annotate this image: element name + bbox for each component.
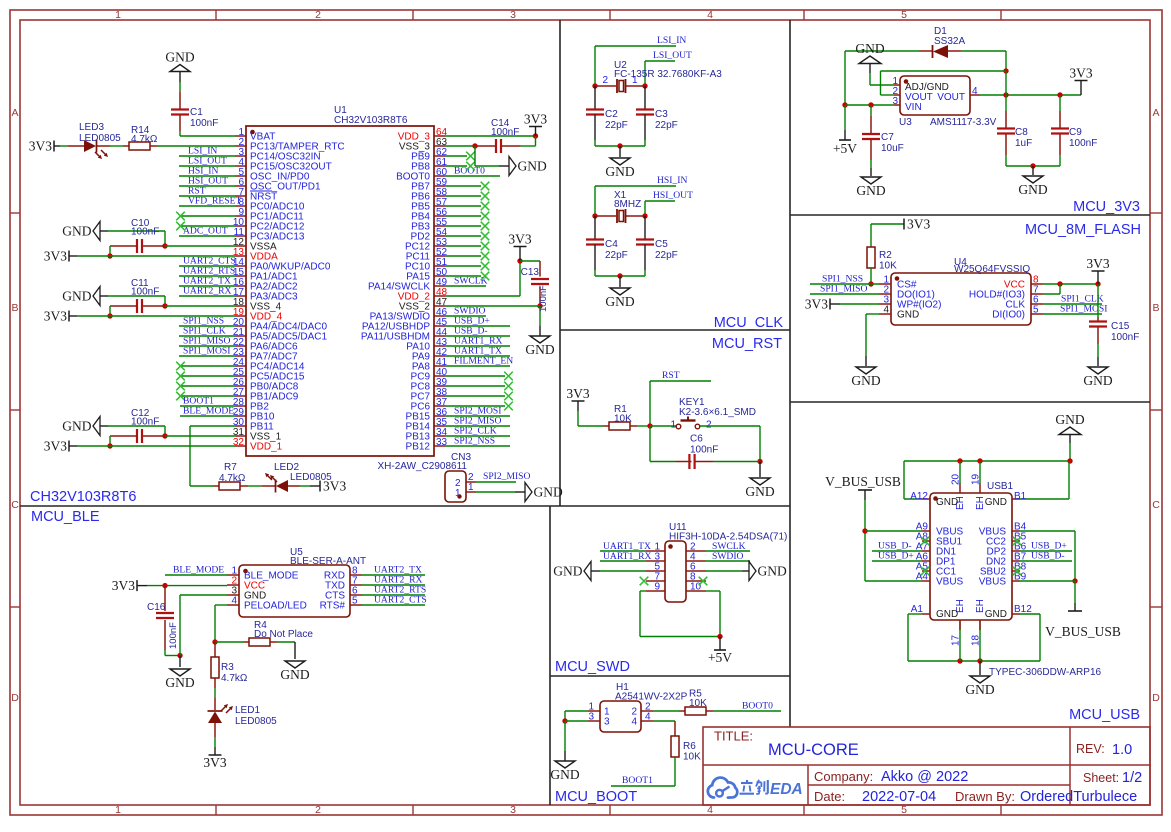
- svg-text:C5: C5: [655, 239, 668, 250]
- svg-text:C: C: [11, 499, 19, 511]
- svg-text:UART2_CTS: UART2_CTS: [374, 595, 427, 606]
- svg-text:C6: C6: [690, 434, 703, 445]
- svg-text:MCU-CORE: MCU-CORE: [768, 741, 859, 759]
- svg-text:VBUS: VBUS: [979, 577, 1007, 588]
- svg-text:VDD_1: VDD_1: [250, 442, 283, 453]
- svg-text:GND: GND: [550, 767, 579, 782]
- svg-text:100nF: 100nF: [131, 227, 159, 238]
- svg-text:4.7kΩ: 4.7kΩ: [131, 134, 158, 145]
- svg-text:LED1: LED1: [235, 705, 260, 716]
- svg-text:C2: C2: [605, 109, 618, 120]
- svg-text:SPI1_MOSI: SPI1_MOSI: [1060, 304, 1107, 315]
- svg-text:3V3: 3V3: [907, 217, 930, 232]
- svg-text:SWDIO: SWDIO: [712, 551, 744, 562]
- svg-text:4: 4: [645, 712, 651, 723]
- svg-text:C9: C9: [1069, 127, 1082, 138]
- svg-text:W25Q64FVSSIQ: W25Q64FVSSIQ: [954, 264, 1030, 275]
- svg-text:LED0805: LED0805: [235, 716, 277, 727]
- svg-text:18: 18: [971, 634, 982, 646]
- svg-text:C1: C1: [190, 107, 203, 118]
- svg-text:U3: U3: [899, 117, 912, 128]
- svg-text:MCU_3V3: MCU_3V3: [1073, 199, 1140, 215]
- svg-text:4: 4: [707, 9, 713, 21]
- svg-text:VFD_RESET: VFD_RESET: [188, 196, 241, 207]
- svg-text:GND: GND: [745, 484, 774, 499]
- svg-text:3V3: 3V3: [44, 309, 67, 324]
- svg-text:100nF: 100nF: [1069, 138, 1097, 149]
- svg-text:UART1_RX: UART1_RX: [603, 551, 652, 562]
- svg-text:C3: C3: [655, 109, 668, 120]
- svg-text:PB12: PB12: [406, 442, 431, 453]
- svg-text:100nF: 100nF: [491, 127, 519, 138]
- svg-text:DI(IO0): DI(IO0): [992, 310, 1025, 321]
- svg-text:10K: 10K: [614, 414, 632, 425]
- svg-text:GND: GND: [280, 667, 309, 682]
- svg-text:22pF: 22pF: [605, 250, 628, 261]
- svg-text:B1: B1: [1014, 491, 1027, 502]
- svg-text:GND: GND: [985, 497, 1007, 508]
- svg-text:GND: GND: [1055, 412, 1084, 427]
- svg-text:MCU_8M_FLASH: MCU_8M_FLASH: [1025, 222, 1141, 238]
- svg-text:GND: GND: [985, 609, 1007, 620]
- svg-text:9: 9: [654, 582, 660, 593]
- svg-text:1: 1: [115, 804, 121, 816]
- svg-text:3V3: 3V3: [508, 232, 531, 247]
- svg-text:BLE_MODE: BLE_MODE: [173, 565, 224, 576]
- svg-text:C: C: [1152, 499, 1160, 511]
- svg-text:100nF: 100nF: [1111, 332, 1139, 343]
- svg-text:GND: GND: [758, 564, 787, 579]
- svg-text:BLE_MODE: BLE_MODE: [183, 406, 234, 417]
- svg-text:UART2_RX: UART2_RX: [183, 286, 232, 297]
- svg-text:GND: GND: [897, 310, 919, 321]
- svg-text:GND: GND: [165, 675, 194, 690]
- svg-text:1: 1: [670, 420, 676, 431]
- svg-text:FILMENT_EN: FILMENT_EN: [454, 356, 513, 367]
- svg-text:GND: GND: [851, 373, 880, 388]
- svg-text:Sheet:: Sheet:: [1083, 771, 1119, 785]
- svg-text:17: 17: [951, 634, 962, 646]
- svg-text:GND: GND: [605, 294, 634, 309]
- svg-text:R2: R2: [879, 250, 892, 261]
- svg-text:3: 3: [604, 717, 610, 728]
- svg-text:3V3: 3V3: [566, 386, 589, 401]
- svg-text:3: 3: [588, 712, 594, 723]
- svg-text:GND: GND: [62, 224, 91, 239]
- svg-text:3V3: 3V3: [1069, 66, 1092, 81]
- svg-text:GND: GND: [936, 497, 958, 508]
- svg-text:OrderedTurbulece: OrderedTurbulece: [1020, 789, 1137, 805]
- svg-text:GND: GND: [518, 159, 547, 174]
- svg-text:100nF: 100nF: [168, 622, 179, 649]
- svg-text:B: B: [11, 302, 18, 314]
- svg-text:1.0: 1.0: [1112, 742, 1132, 758]
- svg-text:Drawn By:: Drawn By:: [955, 789, 1015, 804]
- svg-text:Company:: Company:: [814, 769, 873, 784]
- svg-text:3V3: 3V3: [29, 139, 52, 154]
- svg-text:22pF: 22pF: [655, 250, 678, 261]
- svg-text:GND: GND: [605, 164, 634, 179]
- svg-text:2022-07-04: 2022-07-04: [862, 789, 936, 805]
- svg-text:2: 2: [315, 9, 321, 21]
- svg-text:+5V: +5V: [833, 141, 857, 156]
- svg-text:A1: A1: [911, 604, 924, 615]
- svg-text:C16: C16: [147, 602, 166, 613]
- svg-text:3V3: 3V3: [203, 755, 226, 770]
- svg-text:RTS#: RTS#: [320, 601, 346, 612]
- svg-text:MCU_BOOT: MCU_BOOT: [555, 789, 637, 805]
- svg-text:4: 4: [631, 717, 637, 728]
- svg-text:GND: GND: [936, 609, 958, 620]
- svg-text:SPI2_NSS: SPI2_NSS: [454, 436, 495, 447]
- svg-text:+5V: +5V: [708, 650, 732, 665]
- svg-text:VIN: VIN: [905, 102, 922, 113]
- svg-text:CH32V103R8T6: CH32V103R8T6: [334, 115, 408, 126]
- svg-text:A: A: [1152, 107, 1159, 119]
- svg-text:GND: GND: [855, 41, 884, 56]
- svg-text:1uF: 1uF: [1015, 138, 1032, 149]
- svg-text:USB1: USB1: [987, 481, 1014, 492]
- svg-text:10uF: 10uF: [881, 143, 904, 154]
- svg-text:SWCLK: SWCLK: [454, 276, 488, 287]
- svg-text:5: 5: [901, 9, 907, 21]
- svg-text:REV:: REV:: [1076, 742, 1105, 756]
- svg-text:3V3: 3V3: [44, 249, 67, 264]
- svg-text:USB_D-: USB_D-: [1031, 551, 1065, 562]
- svg-text:VOUT: VOUT: [937, 92, 965, 103]
- svg-text:GND: GND: [62, 289, 91, 304]
- svg-text:TYPEC-306DDW-ARP16: TYPEC-306DDW-ARP16: [989, 667, 1102, 678]
- svg-text:A: A: [11, 107, 18, 119]
- svg-text:8MHZ: 8MHZ: [614, 199, 641, 210]
- svg-text:4: 4: [231, 596, 237, 607]
- svg-text:MCU_SWD: MCU_SWD: [555, 659, 630, 675]
- svg-text:GND: GND: [856, 183, 885, 198]
- svg-text:100nF: 100nF: [131, 417, 159, 428]
- svg-text:3V3: 3V3: [44, 439, 67, 454]
- svg-text:MCU_USB: MCU_USB: [1069, 707, 1140, 723]
- svg-text:100nF: 100nF: [131, 287, 159, 298]
- svg-text:V_BUS_USB: V_BUS_USB: [1045, 624, 1121, 639]
- svg-text:VBUS: VBUS: [936, 577, 964, 588]
- svg-text:1: 1: [632, 75, 638, 86]
- svg-text:SPI1_MISO: SPI1_MISO: [820, 284, 868, 295]
- svg-text:3: 3: [510, 9, 516, 21]
- svg-text:LED3: LED3: [79, 122, 104, 133]
- svg-text:LED0805: LED0805: [79, 133, 121, 144]
- svg-text:3V3: 3V3: [805, 297, 828, 312]
- svg-text:HSI_IN: HSI_IN: [657, 175, 687, 186]
- svg-text:1/2: 1/2: [1122, 770, 1142, 786]
- svg-text:BOOT1: BOOT1: [622, 775, 653, 786]
- svg-text:22pF: 22pF: [605, 120, 628, 131]
- svg-text:4.7kΩ: 4.7kΩ: [219, 473, 246, 484]
- svg-text:GND: GND: [62, 419, 91, 434]
- svg-text:10K: 10K: [879, 261, 897, 272]
- svg-text:GND: GND: [965, 682, 994, 697]
- svg-text:LSI_OUT: LSI_OUT: [653, 50, 692, 61]
- svg-text:19: 19: [971, 473, 982, 485]
- svg-text:K2-3.6×6.1_SMD: K2-3.6×6.1_SMD: [679, 407, 756, 418]
- svg-text:Do Not Place: Do Not Place: [254, 629, 313, 640]
- svg-text:GND: GND: [165, 50, 194, 65]
- svg-text:4: 4: [883, 305, 889, 316]
- svg-text:SS32A: SS32A: [934, 36, 965, 47]
- svg-text:B12: B12: [1014, 604, 1032, 615]
- svg-text:1: 1: [468, 482, 474, 493]
- svg-text:4.7kΩ: 4.7kΩ: [221, 673, 248, 684]
- svg-text:MCU_CLK: MCU_CLK: [714, 315, 784, 331]
- svg-text:B: B: [1152, 302, 1159, 314]
- svg-text:100nF: 100nF: [538, 285, 549, 312]
- svg-text:V_BUS_USB: V_BUS_USB: [825, 474, 901, 489]
- svg-text:Akko @ 2022: Akko @ 2022: [881, 769, 968, 785]
- svg-text:TITLE:: TITLE:: [714, 729, 753, 744]
- svg-text:FC-135R 32.7680KF-A3: FC-135R 32.7680KF-A3: [614, 69, 722, 80]
- svg-text:GND: GND: [1083, 373, 1112, 388]
- svg-text:GND: GND: [553, 564, 582, 579]
- svg-text:2: 2: [706, 420, 712, 431]
- svg-text:GND: GND: [1018, 182, 1047, 197]
- svg-text:10K: 10K: [683, 752, 701, 763]
- svg-text:2: 2: [602, 75, 608, 86]
- svg-text:PELOAD/LED: PELOAD/LED: [244, 601, 307, 612]
- svg-text:SPI1_MOSI: SPI1_MOSI: [183, 346, 230, 357]
- svg-text:EDA: EDA: [770, 781, 803, 798]
- svg-text:CH32V103R8T6: CH32V103R8T6: [30, 489, 136, 505]
- svg-text:USB_D+: USB_D+: [878, 551, 914, 562]
- svg-text:GND: GND: [525, 342, 554, 357]
- svg-text:D: D: [11, 692, 19, 704]
- svg-text:R7: R7: [224, 462, 237, 473]
- svg-text:MCU_RST: MCU_RST: [712, 336, 782, 352]
- svg-text:C8: C8: [1015, 127, 1028, 138]
- svg-text:XH-2AW_C2908611: XH-2AW_C2908611: [378, 461, 468, 472]
- svg-text:RST: RST: [662, 370, 680, 381]
- svg-text:1: 1: [455, 488, 461, 499]
- svg-text:BOOT0: BOOT0: [742, 701, 773, 712]
- svg-text:3V3: 3V3: [524, 112, 547, 127]
- svg-text:R6: R6: [683, 741, 696, 752]
- svg-text:3V3: 3V3: [1086, 256, 1109, 271]
- svg-text:10K: 10K: [689, 698, 707, 709]
- svg-text:5: 5: [352, 596, 358, 607]
- svg-text:HSI_OUT: HSI_OUT: [653, 190, 693, 201]
- svg-text:22pF: 22pF: [655, 120, 678, 131]
- svg-text:20: 20: [951, 473, 962, 485]
- svg-text:3: 3: [510, 804, 516, 816]
- svg-text:SPI2_MISO: SPI2_MISO: [483, 471, 531, 482]
- svg-text:C7: C7: [881, 132, 894, 143]
- svg-text:5: 5: [1033, 305, 1039, 316]
- svg-text:ADC_OUT: ADC_OUT: [183, 226, 228, 237]
- svg-text:GND: GND: [534, 485, 563, 500]
- svg-text:AMS1117-3.3V: AMS1117-3.3V: [930, 117, 997, 128]
- svg-text:D: D: [1152, 692, 1160, 704]
- svg-text:Date:: Date:: [814, 789, 845, 804]
- svg-text:2: 2: [315, 804, 321, 816]
- svg-text:R3: R3: [221, 662, 234, 673]
- svg-text:LED0805: LED0805: [290, 472, 332, 483]
- svg-text:1: 1: [115, 9, 121, 21]
- svg-text:100nF: 100nF: [690, 445, 718, 456]
- svg-text:A12: A12: [910, 491, 928, 502]
- svg-text:100nF: 100nF: [190, 118, 218, 129]
- svg-text:A2541WV-2X2P: A2541WV-2X2P: [615, 692, 688, 703]
- svg-text:LSI_IN: LSI_IN: [657, 35, 686, 46]
- svg-text:MCU_BLE: MCU_BLE: [31, 509, 100, 525]
- svg-text:C4: C4: [605, 239, 618, 250]
- svg-text:C15: C15: [1111, 321, 1130, 332]
- svg-text:C13: C13: [521, 267, 540, 278]
- svg-text:3V3: 3V3: [112, 578, 135, 593]
